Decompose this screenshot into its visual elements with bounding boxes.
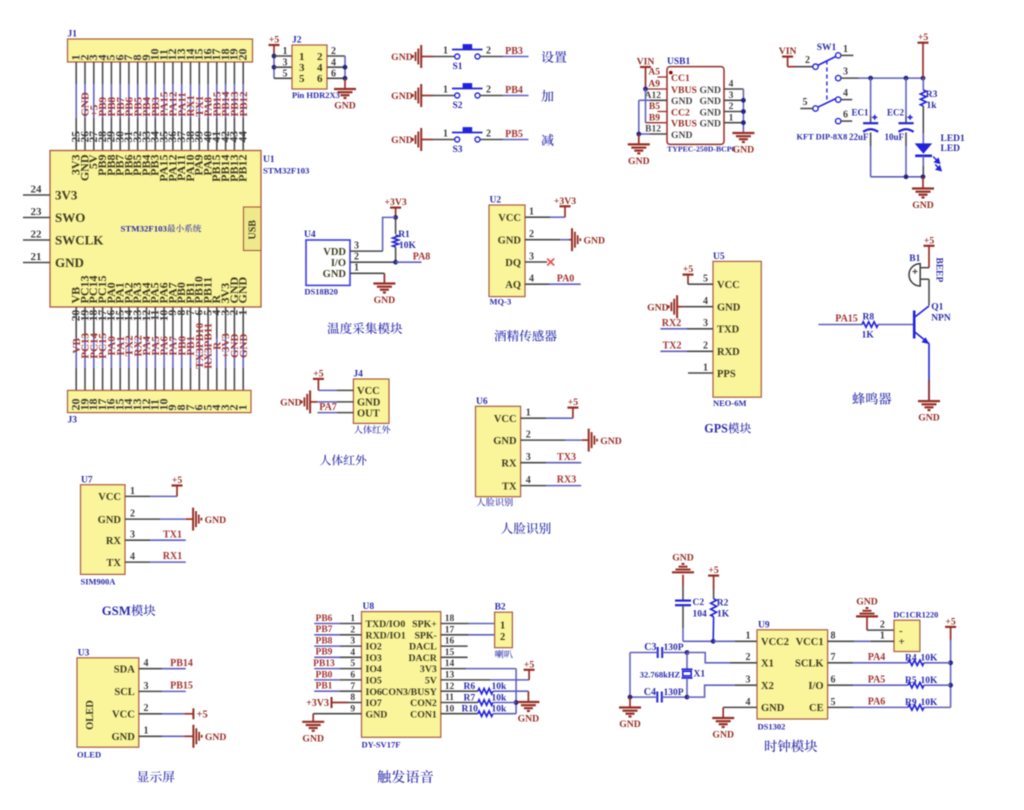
svg-text:R2: R2 — [717, 599, 729, 609]
svg-text:A5: A5 — [648, 68, 660, 78]
svg-text:1: 1 — [880, 631, 885, 642]
svg-text:2: 2 — [354, 252, 359, 263]
wire J1 pin 6 to U1 pin 30 net PB7 — [115, 62, 127, 151]
svg-text:TXD/IO0: TXD/IO0 — [366, 619, 406, 630]
svg-text:GND: GND — [856, 596, 878, 607]
wire U9 VCC1 pin 8 to battery pin 1 — [828, 631, 894, 642]
USB1 right pin 1 (GND) — [724, 113, 743, 123]
svg-text:GND: GND — [236, 277, 250, 304]
svg-text:4: 4 — [529, 274, 534, 285]
connector USB1 TYPEC-250D-BCP6 — [667, 57, 736, 154]
wire U4 I/O pin 2 net PA8 — [350, 251, 430, 264]
svg-text:GND: GND — [391, 52, 413, 63]
svg-text:GND: GND — [584, 235, 606, 246]
svg-text:VCC: VCC — [494, 414, 517, 425]
wire J1 pin 11 to U1 pin 35 net PA15 — [158, 62, 170, 151]
power +3V3 bar at U8 IO7 pin 8 — [306, 693, 361, 709]
svg-text:VBUS: VBUS — [671, 85, 697, 96]
svg-text:TX3: TX3 — [557, 452, 576, 463]
svg-text:TX2: TX2 — [663, 340, 682, 351]
svg-text:GND: GND — [628, 156, 650, 167]
svg-text:24: 24 — [31, 184, 43, 196]
wire S2 pin 2 net PB4 — [480, 85, 529, 96]
svg-text:+5: +5 — [568, 397, 579, 408]
svg-text:5: 5 — [350, 659, 355, 669]
wire U8 SPK+ pin 18 to speaker — [441, 614, 495, 624]
resistor R8 1K — [862, 312, 913, 340]
svg-text:NPN: NPN — [931, 313, 951, 323]
svg-text:PB7: PB7 — [316, 625, 333, 635]
connector J4 human IR sensor — [353, 370, 389, 424]
wire U6 TX pin 4 net RX3 — [521, 475, 582, 486]
wire J1 pin 1 to U1 pin 25 — [71, 62, 83, 151]
wire U1 bottom pin 8 to J3 pin 8 net PB0 — [176, 307, 188, 390]
svg-text:B9: B9 — [649, 113, 660, 123]
USB1 pin A9 (VBUS) wire to VIN — [643, 80, 667, 92]
IC U5 NEO-6M GPS — [713, 252, 761, 408]
svg-text:14: 14 — [445, 659, 455, 669]
svg-text:GND: GND — [699, 119, 721, 130]
label 减 — [541, 134, 553, 146]
svg-text:11: 11 — [445, 693, 454, 703]
wire buzzer to Q1 collector — [928, 279, 930, 305]
svg-text:R3: R3 — [926, 90, 938, 100]
wire J1 pin 9 to U1 pin 33 net PB4 — [141, 62, 153, 151]
ground at switch S3 — [391, 128, 421, 151]
ground sideways at U3 — [193, 725, 226, 748]
svg-text:DQ: DQ — [505, 258, 521, 269]
svg-text:GND: GND — [323, 269, 347, 280]
svg-text:U6: U6 — [476, 397, 488, 407]
title voice trigger — [378, 770, 434, 783]
label 加 — [541, 90, 553, 102]
svg-text:7: 7 — [350, 682, 355, 692]
IC U3 OLED display — [77, 648, 139, 759]
SW1 pin 6 stub — [841, 120, 852, 122]
svg-text:GND: GND — [912, 200, 934, 211]
ground sideways at U2 — [572, 228, 605, 251]
wire U6 VCC pin 1 to +5 — [521, 408, 573, 419]
svg-text:4: 4 — [729, 80, 734, 90]
svg-text:GND: GND — [55, 255, 84, 270]
svg-text:PB4: PB4 — [505, 85, 523, 96]
ground sideways at U7 — [193, 508, 226, 531]
svg-text:1k: 1k — [927, 101, 938, 111]
ground below crystal — [619, 708, 641, 731]
wire J4 OUT net PA7 — [317, 402, 353, 413]
wire U8 pin 2 net PB7 — [314, 625, 361, 635]
wire U8 pin 6 net PB0 — [314, 670, 361, 680]
buzzer B1 BEEP — [909, 254, 943, 286]
svg-text:4: 4 — [526, 475, 531, 486]
wire J2 pins 2,4,6 to GND — [327, 56, 347, 89]
wire J4 GND — [310, 401, 353, 403]
svg-text:PB3: PB3 — [505, 46, 523, 57]
svg-text:GND: GND — [671, 96, 693, 107]
svg-text:32.768kHZ: 32.768kHZ — [640, 670, 681, 680]
svg-text:GND: GND — [699, 107, 721, 118]
transistor Q1 NPN — [914, 302, 951, 344]
svg-text:VCC1: VCC1 — [796, 637, 824, 648]
U1 left pin 23 — [23, 206, 50, 218]
svg-text:PB9: PB9 — [316, 648, 333, 658]
svg-text:J3: J3 — [68, 416, 78, 426]
svg-text:DACR: DACR — [408, 653, 437, 664]
svg-text:PB13: PB13 — [313, 659, 335, 669]
svg-text:5: 5 — [803, 97, 808, 108]
svg-text:3: 3 — [703, 318, 708, 329]
svg-text:1: 1 — [354, 263, 359, 274]
svg-text:R10: R10 — [462, 705, 479, 715]
wire S1 pin 2 net PB3 — [480, 46, 529, 57]
svg-text:4: 4 — [130, 552, 135, 563]
wire J1 pin 2 to U1 pin 26 net GND — [79, 62, 91, 151]
svg-text:1K: 1K — [862, 331, 875, 341]
svg-text:9: 9 — [350, 704, 355, 714]
svg-text:EC2: EC2 — [887, 107, 905, 117]
svg-text:X1: X1 — [694, 670, 706, 680]
svg-text:+3V3: +3V3 — [554, 196, 576, 207]
svg-text:RX3: RX3 — [557, 475, 576, 486]
svg-text:8: 8 — [831, 631, 836, 642]
USB1 pin B5 (CC2) — [649, 102, 667, 112]
resistor R10 10k on CON1 pin 10 — [441, 704, 516, 716]
svg-text:+5: +5 — [313, 368, 324, 379]
svg-text:1: 1 — [443, 85, 448, 96]
ground below U4 — [373, 284, 395, 307]
svg-text:3: 3 — [843, 67, 848, 78]
svg-text:OLED: OLED — [77, 750, 101, 760]
ground right of U8 — [517, 702, 539, 725]
svg-text:GND: GND — [712, 730, 734, 741]
svg-text:3V3: 3V3 — [420, 664, 437, 675]
svg-text:GSM: GSM — [102, 604, 131, 618]
svg-text:GND: GND — [111, 732, 135, 743]
IC U1 STM32F103 minimal system block — [50, 151, 310, 308]
wire J4 VCC — [318, 389, 353, 391]
svg-text:GND: GND — [498, 236, 522, 247]
title human IR — [320, 455, 366, 466]
wire C2/R2 to U9 VCC2 pin 1 — [683, 631, 757, 644]
svg-text:R8: R8 — [863, 312, 875, 322]
svg-text:Pin HDR2X3: Pin HDR2X3 — [292, 90, 340, 100]
svg-text:13: 13 — [445, 671, 455, 681]
USB1 right pin 3 (GND) — [724, 91, 743, 101]
wire U7 RX pin 3 net TX1 — [125, 529, 186, 540]
power +5 at U6 — [567, 397, 578, 408]
svg-text:TYPEC-250D-BCP6: TYPEC-250D-BCP6 — [667, 145, 736, 154]
svg-text:U4: U4 — [304, 230, 316, 240]
svg-text:SWO: SWO — [55, 210, 85, 225]
wire J1 pin 16 to U1 pin 40 net PA8 — [202, 62, 214, 151]
svg-text:CON1: CON1 — [410, 709, 437, 720]
power +3V3 above R1 — [384, 197, 406, 220]
svg-text:1: 1 — [703, 362, 708, 373]
svg-text:RX2: RX2 — [662, 318, 681, 329]
wire U8 pin 5 net PB13 — [313, 659, 361, 669]
svg-text:5: 5 — [283, 69, 288, 80]
svg-text:+3V3: +3V3 — [306, 698, 329, 709]
svg-text:GND: GND — [717, 303, 741, 314]
wire U3 SCL pin 3 net PB15 — [139, 681, 193, 692]
power +5 right of clock — [945, 616, 956, 707]
capacitor C3 130P — [630, 642, 689, 658]
svg-text:2: 2 — [729, 102, 734, 112]
svg-text:1: 1 — [299, 51, 305, 63]
wire U1 bottom pin 20 to J3 pin 20 net VB — [71, 307, 83, 390]
resistor R6 10k on CON3/BUSY pin 12 — [441, 682, 529, 702]
USB1 pin A12 (GND) wire — [639, 91, 667, 101]
svg-text:R6: R6 — [464, 682, 476, 692]
ground sideways at U5 — [647, 295, 677, 318]
svg-text:7: 7 — [831, 652, 836, 663]
wire U3 VCC pin 2 to +5 bar — [139, 703, 194, 714]
title temperature module — [327, 322, 402, 334]
wire U7 VCC pin 1 to +5 — [125, 486, 177, 497]
svg-text:IO2: IO2 — [366, 642, 382, 653]
svg-text:SPK+: SPK+ — [412, 619, 437, 630]
svg-text:U5: U5 — [713, 252, 725, 262]
svg-text:2: 2 — [144, 703, 149, 714]
svg-text:VIN: VIN — [637, 57, 655, 68]
svg-text:B12: B12 — [645, 125, 661, 135]
U1 left pin 24 — [23, 184, 50, 196]
title alcohol sensor — [494, 330, 556, 342]
svg-text:C4: C4 — [644, 687, 656, 698]
svg-text:+5: +5 — [269, 35, 280, 46]
svg-text:22uF: 22uF — [849, 132, 869, 142]
wire USB1 right GND bus — [741, 89, 746, 133]
svg-text:GND: GND — [493, 436, 517, 447]
svg-text:IO5: IO5 — [366, 676, 382, 687]
IC U7 SIM900A GSM — [81, 475, 126, 586]
speaker B2 — [495, 603, 513, 648]
U1 left pin 22 — [23, 229, 50, 241]
wire J1 pin 10 to U1 pin 34 net PB3 — [150, 62, 162, 151]
wire U1 bottom pin 5 to J3 pin 5 net RX3PB11 — [202, 307, 214, 390]
wire U1 bottom pin 18 to J3 pin 18 net PC14 — [88, 307, 100, 390]
svg-text:22: 22 — [31, 229, 43, 241]
pushbutton S2 — [452, 83, 483, 111]
USB sub-connector on U1 — [244, 207, 262, 251]
svg-text:104: 104 — [693, 610, 708, 620]
svg-text:X2: X2 — [761, 681, 774, 692]
svg-text:USB1: USB1 — [667, 57, 690, 67]
svg-text:4: 4 — [703, 296, 708, 307]
pushbutton S1 — [452, 44, 483, 72]
svg-text:A12: A12 — [645, 91, 662, 101]
connector J3 (20-pin header) — [68, 390, 252, 425]
svg-text:2: 2 — [486, 129, 491, 140]
svg-text:GND: GND — [302, 733, 324, 744]
title display — [137, 771, 174, 783]
wire U3 GND pin 1 — [139, 726, 194, 737]
wire U8 pin 7 net PB1 — [314, 682, 361, 692]
svg-text:+5: +5 — [945, 616, 956, 627]
wire U1 bottom pin 12 to J3 pin 12 net PA4 — [141, 307, 153, 390]
svg-text:SW1: SW1 — [817, 43, 837, 53]
svg-text:3: 3 — [350, 637, 355, 647]
wire J1 pin 20 to U1 pin 44 net PB12 — [238, 62, 250, 151]
svg-text:3: 3 — [746, 675, 751, 686]
svg-text:GND: GND — [918, 413, 940, 424]
svg-text:10: 10 — [445, 704, 455, 714]
wire U1 bottom pin 6 to J3 pin 6 net TX3PB10 — [194, 307, 206, 390]
wire U4 GND pin 1 — [350, 263, 384, 284]
title buzzer — [852, 392, 891, 404]
wire U5 GND pin 4 — [677, 296, 713, 307]
wire GND to S1 pin 1 — [421, 46, 454, 57]
svg-text:CC2: CC2 — [671, 107, 690, 118]
svg-text:J1: J1 — [68, 30, 78, 40]
svg-text:TXD: TXD — [717, 325, 740, 336]
wire U2 GND pin 2 — [525, 229, 572, 240]
svg-text:VCC: VCC — [717, 280, 740, 291]
wire U6 GND pin 2 — [521, 430, 589, 441]
svg-text:J4: J4 — [353, 370, 363, 380]
svg-text:VCC: VCC — [98, 492, 121, 503]
SW1 pin 5 stub — [800, 108, 813, 110]
svg-text:U3: U3 — [78, 648, 90, 658]
svg-text:USB: USB — [248, 220, 259, 240]
label speaker subtitle — [495, 650, 513, 658]
svg-text:AQ: AQ — [505, 280, 521, 291]
wire Q1 emitter to GND — [928, 344, 930, 402]
svg-text:2: 2 — [350, 625, 355, 635]
svg-text:1: 1 — [843, 44, 848, 55]
IC U8 DY-SV17F voice module — [362, 602, 441, 749]
svg-text:U7: U7 — [81, 475, 93, 485]
svg-text:3: 3 — [144, 681, 149, 692]
ground below U8 left — [302, 722, 324, 745]
capacitor C4 130P — [630, 687, 689, 703]
svg-text:2: 2 — [486, 46, 491, 57]
svg-text:PB8: PB8 — [316, 637, 333, 647]
svg-text:Q1: Q1 — [931, 302, 943, 312]
label 设置 — [542, 51, 567, 63]
svg-text:5: 5 — [299, 73, 305, 85]
svg-text:8: 8 — [350, 693, 355, 703]
svg-text:2: 2 — [805, 55, 810, 66]
svg-text:BEEP: BEEP — [933, 258, 943, 283]
svg-text:2: 2 — [526, 430, 531, 441]
wire U8 GND pin 9 — [313, 704, 361, 722]
svg-text:+5: +5 — [918, 32, 929, 43]
svg-text:1: 1 — [238, 310, 250, 316]
wire U8 3V3 pin 14 to CON bus — [441, 659, 519, 714]
U8 DACR pin 15 stub — [441, 648, 468, 658]
svg-text:GND: GND — [205, 732, 227, 743]
svg-text:PA0: PA0 — [557, 273, 575, 284]
capacitor C2 104 — [675, 598, 707, 641]
resistor R2 1K — [711, 599, 730, 642]
svg-text:IO6: IO6 — [366, 687, 382, 698]
svg-text:SPK-: SPK- — [414, 630, 436, 641]
svg-text:PB5: PB5 — [505, 129, 523, 140]
svg-text:U2: U2 — [490, 196, 502, 206]
svg-text:RX: RX — [501, 459, 517, 470]
svg-text:3: 3 — [130, 530, 135, 541]
svg-text:1: 1 — [350, 614, 355, 624]
svg-text:GND: GND — [391, 135, 413, 146]
svg-text:1: 1 — [443, 129, 448, 140]
svg-text:1: 1 — [729, 113, 734, 123]
svg-text:PA15: PA15 — [835, 313, 858, 324]
svg-text:4: 4 — [843, 88, 848, 99]
svg-text:1: 1 — [130, 486, 135, 497]
svg-text:RXD/IO1: RXD/IO1 — [366, 630, 406, 641]
svg-text:1: 1 — [236, 405, 250, 411]
wire J1 pin 13 to U1 pin 37 net PA11 — [176, 62, 188, 151]
svg-text:DC1CR1220: DC1CR1220 — [893, 611, 938, 620]
wire net PA15 to R8 — [818, 313, 862, 324]
svg-text:RXD: RXD — [717, 347, 740, 358]
wire J1 pin 19 to U1 pin 43 net PB13 — [229, 62, 241, 151]
wire U1 bottom pin 13 to J3 pin 13 net RX2 — [132, 307, 144, 390]
svg-text:PA7: PA7 — [319, 402, 337, 413]
wire U1 bottom pin 1 to J3 pin 1 net GND — [238, 307, 250, 390]
svg-text:17: 17 — [445, 625, 455, 635]
svg-text:VCC: VCC — [498, 213, 521, 224]
wire U9 pin 7 net PA4 with resistor R4 10K — [828, 652, 951, 666]
svg-text:PPS: PPS — [717, 369, 736, 380]
svg-text:3: 3 — [529, 251, 534, 262]
svg-text:DS1302: DS1302 — [758, 722, 786, 732]
ground sideways at U6 — [589, 429, 622, 452]
svg-text:SDA: SDA — [114, 665, 135, 676]
svg-text:GND: GND — [205, 515, 227, 526]
svg-text:SIM900A: SIM900A — [81, 577, 117, 587]
label U6 subtitle — [477, 498, 513, 507]
svg-text:1K: 1K — [717, 610, 730, 620]
svg-text:6: 6 — [350, 671, 355, 681]
svg-text:A9: A9 — [648, 80, 660, 90]
wire crystal left rail to GND — [628, 653, 633, 708]
svg-text:CON3/BUSY: CON3/BUSY — [381, 687, 437, 698]
ground above battery — [856, 596, 878, 630]
svg-text:PB14: PB14 — [170, 658, 193, 669]
IC U6 face recognition — [476, 397, 521, 497]
power +5 at J4 — [313, 368, 324, 390]
IC U4 DS18B20 — [304, 230, 350, 297]
wire J1 pin 14 to U1 pin 38 net RX1 — [185, 62, 197, 151]
power +5 bar at U3 — [193, 708, 207, 720]
wire bottom rail EC1-EC2-LED — [871, 174, 926, 188]
svg-text:SCL: SCL — [114, 687, 134, 698]
wire battery pin 2 — [867, 620, 894, 631]
svg-text:3V3: 3V3 — [55, 188, 78, 203]
connector J2 Pin HDR2X3 — [283, 36, 340, 100]
SW1 pin 4 stub — [841, 99, 852, 101]
svg-text:KFT DIP-8X8: KFT DIP-8X8 — [797, 133, 848, 142]
svg-text:LED: LED — [941, 144, 961, 154]
power +5 at U8 — [524, 659, 535, 670]
wire U8 SPK- pin 17 to speaker — [441, 625, 495, 635]
svg-text:3: 3 — [354, 241, 359, 252]
svg-text:130P: 130P — [664, 688, 684, 698]
wire J1 pin 18 to U1 pin 42 net PB14 — [220, 62, 232, 151]
svg-text:MQ-3: MQ-3 — [490, 297, 512, 307]
svg-text:GND: GND — [619, 719, 641, 730]
IC U9 DS1302 clock — [757, 620, 828, 731]
svg-text:10uF: 10uF — [884, 132, 904, 142]
USB1 pin B12 (GND) wire — [636, 100, 667, 144]
svg-text:PB6: PB6 — [316, 614, 333, 624]
svg-text:IO4: IO4 — [366, 664, 382, 675]
wire U3 SDA pin 4 net PB14 — [139, 658, 193, 669]
svg-text:LED1: LED1 — [941, 134, 966, 144]
title GPS module — [704, 422, 751, 436]
